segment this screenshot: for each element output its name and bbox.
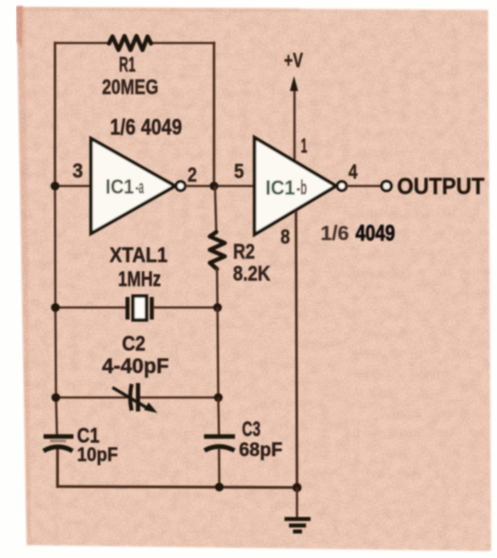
- ground: [285, 488, 311, 532]
- svg-text:3: 3: [73, 161, 84, 183]
- svg-text:2: 2: [188, 165, 198, 187]
- wire: C3 bottom stub: [218, 449, 221, 487]
- capacitor C3: [204, 437, 235, 451]
- wire: pin 8 down to ground rail: [296, 211, 297, 489]
- resistor R2: [210, 232, 225, 269]
- junction: crystal row left: [51, 303, 60, 312]
- wire: left rail mid (pin3 row to crystal row): [54, 186, 57, 308]
- inversion bubble IC1-a: [176, 182, 185, 191]
- wire: crystal row left: [55, 306, 126, 308]
- svg-text:+V: +V: [284, 50, 303, 72]
- junction: pin2 node / R2 top: [210, 182, 219, 191]
- darker left edge of page: [17, 7, 31, 545]
- resistor R1: [109, 36, 151, 50]
- wire: right rail upper (feedback to pin2 node): [213, 42, 216, 186]
- svg-text:XTAL1: XTAL1: [110, 243, 168, 267]
- wire: R2 bottom to crystal row: [216, 268, 219, 308]
- wire: pin4 output to terminal: [345, 185, 381, 187]
- junction: C2 row left: [51, 393, 60, 402]
- label 1/6 4049 (IC1-b): [321, 221, 396, 246]
- wire: top feedback, right segment: [150, 42, 215, 44]
- wire: pin2 output to node: [184, 185, 255, 187]
- svg-text:1/6: 1/6: [321, 223, 350, 245]
- svg-text:R2: R2: [233, 240, 255, 264]
- svg-text:1MHz: 1MHz: [118, 267, 161, 291]
- svg-text:20MEG: 20MEG: [102, 75, 159, 99]
- wire: left rail (C1 bottom to ground rail): [56, 449, 59, 488]
- svg-text:1: 1: [301, 136, 308, 158]
- wire: bottom ground rail: [57, 487, 298, 488]
- svg-text:OUTPUT: OUTPUT: [397, 173, 485, 199]
- junction: crystal row right: [213, 303, 222, 312]
- label IC1-a: [106, 176, 145, 199]
- svg-text:5: 5: [234, 161, 244, 183]
- darker top edge line of page: [17, 7, 300, 12]
- junction: bottom rail / pin8: [292, 483, 301, 492]
- capacitor C1: [44, 437, 74, 452]
- svg-text:8: 8: [281, 227, 291, 249]
- svg-text:1/6 4049: 1/6 4049: [110, 115, 182, 140]
- wire: R2/crystal node down to C2 row: [216, 308, 219, 398]
- op-amp inverter IC1-a: [91, 139, 175, 234]
- svg-text:IC1: IC1: [266, 177, 296, 200]
- wire: crystal row right: [154, 306, 218, 308]
- junction: bottom rail / C3: [215, 483, 224, 492]
- svg-text:4049: 4049: [356, 221, 396, 246]
- wire: left rail (crystal row to C2 row): [54, 308, 57, 398]
- crystal XTAL1: [128, 296, 152, 320]
- svg-text:4-40pF: 4-40pF: [102, 354, 169, 378]
- wire: C2 row right: [140, 396, 218, 398]
- wire: C2 node down to C3 top: [217, 398, 220, 437]
- svg-text:C2: C2: [122, 332, 146, 356]
- svg-text:10pF: 10pF: [77, 444, 118, 466]
- svg-text:8.2K: 8.2K: [233, 262, 271, 286]
- wire: pin 3 input stub: [55, 185, 92, 187]
- svg-text:4: 4: [349, 162, 359, 184]
- junction: C2 row right: [214, 393, 223, 402]
- power +V arrow: [293, 88, 295, 160]
- svg-text:R1: R1: [119, 53, 136, 77]
- dark red scan blemish top-left: [17, 6, 24, 48]
- wire: left rail (C2 row to C1 top): [56, 398, 57, 437]
- svg-text:C3: C3: [242, 417, 261, 441]
- op-amp inverter IC1-b: [255, 138, 337, 235]
- wire: R2 rail top stub: [215, 186, 216, 233]
- wire: left rail upper (node A to pin3 row): [54, 42, 57, 186]
- inversion bubble IC1-b: [337, 182, 346, 191]
- svg-text:-b: -b: [297, 178, 308, 200]
- junction: left rail / pin3: [51, 182, 60, 191]
- variable capacitor C2: [113, 383, 158, 413]
- svg-text:68pF: 68pF: [239, 439, 283, 461]
- wire: C2 row left: [56, 396, 128, 398]
- wire: top feedback, left segment: [55, 42, 110, 44]
- label IC1-b: [266, 177, 308, 200]
- node OUTPUT terminal: [382, 181, 392, 191]
- svg-text:-a: -a: [136, 178, 145, 199]
- svg-text:IC1: IC1: [106, 176, 135, 199]
